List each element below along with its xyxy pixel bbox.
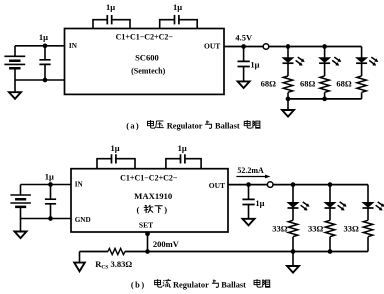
- svg-text:52.2mA: 52.2mA: [237, 166, 264, 175]
- capacitor C2 flying (b): [166, 154, 201, 169]
- label 4.5V: [235, 33, 253, 43]
- pin row label C1+C1-C2+C2- a: [116, 33, 174, 42]
- node dot SET pin: [145, 232, 150, 237]
- node dot out cap b: [246, 182, 251, 187]
- wire out rail a left part: [224, 46, 263, 48]
- node dot out cap a: [241, 44, 246, 49]
- resistor R6 33ohm: [363, 208, 372, 252]
- wire SET drop: [147, 232, 149, 252]
- label maker (CJK): [137, 205, 168, 215]
- wire out rail b right part: [273, 184, 368, 186]
- svg-text:(: (: [137, 205, 140, 215]
- pin row label C1+C1-C2+C2- b: [120, 173, 178, 182]
- node open circle b: [267, 182, 273, 188]
- label 68ohm 3: [336, 78, 352, 88]
- capacitor C1 flying (b): [97, 154, 135, 169]
- svg-text:Regulator: Regulator: [173, 281, 209, 290]
- svg-text:Regulator: Regulator: [167, 122, 203, 131]
- label 68ohm 1: [261, 78, 277, 88]
- svg-text:OUT: OUT: [209, 181, 225, 190]
- caption b: [131, 279, 270, 290]
- svg-text:68Ω: 68Ω: [336, 78, 352, 88]
- label SC600: [135, 52, 159, 62]
- resistor Rcs horizontal: [108, 248, 125, 254]
- svg-text:Ballast: Ballast: [215, 122, 240, 131]
- svg-text:1μ: 1μ: [178, 143, 187, 153]
- label MAX1910: [134, 191, 173, 201]
- wire out rail b left part: [228, 184, 267, 186]
- label 33ohm 2: [308, 224, 324, 234]
- battery V1: [4, 46, 25, 80]
- wire bottom rail a: [288, 98, 362, 100]
- node dot input cap bottom b: [48, 216, 53, 221]
- resistor R4 33ohm: [288, 208, 297, 252]
- label 1u C2 a: [173, 2, 182, 12]
- pin label OUT b: [209, 181, 225, 190]
- node dot branch1 bottom b: [291, 249, 296, 254]
- resistor R2 68ohm: [320, 63, 329, 99]
- node dot SET rail: [145, 249, 150, 254]
- op-amp U1 SC600 box: [65, 29, 225, 95]
- svg-text:33Ω: 33Ω: [344, 224, 360, 234]
- pin label OUT a: [204, 42, 220, 51]
- node dot input cap top a: [43, 43, 48, 48]
- svg-text:RCS 3.83Ω: RCS 3.83Ω: [95, 259, 132, 271]
- node dot input cap bottom a: [43, 78, 48, 83]
- resistor R3 68ohm: [357, 63, 366, 99]
- node dot branch1 top b: [291, 182, 296, 187]
- capacitor Cout 1u (b): [242, 185, 254, 219]
- op-amp U2 MAX1910 box: [71, 169, 228, 232]
- pin label SET b: [139, 220, 153, 229]
- svg-text:1μ: 1μ: [255, 198, 264, 208]
- ground battery b: [15, 219, 27, 239]
- label 33ohm 3: [344, 224, 360, 234]
- wire bottom rail b right: [125, 251, 368, 253]
- LED D3: [356, 47, 378, 66]
- label 1u input cap a: [39, 32, 48, 42]
- node dot branch2 top b: [328, 182, 333, 187]
- svg-text:33Ω: 33Ω: [272, 224, 288, 234]
- ground LED rail b: [287, 252, 299, 273]
- battery V2: [10, 185, 31, 219]
- svg-text:C1+C1−C2+C2−: C1+C1−C2+C2−: [120, 173, 178, 182]
- label 200mV: [153, 239, 180, 249]
- node dot branch2 top a: [322, 44, 327, 49]
- capacitor Cin 1u (a): [39, 46, 50, 80]
- svg-text:IN: IN: [75, 181, 84, 189]
- capacitor Cout 1u (a): [238, 47, 250, 82]
- node dot branch2 bottom a: [322, 97, 327, 102]
- wire bottom rail b left: [80, 251, 109, 253]
- label 1u out cap b: [255, 198, 264, 208]
- svg-text:200mV: 200mV: [153, 239, 180, 249]
- label 68ohm 2: [300, 78, 316, 88]
- ground Rcs: [74, 252, 85, 272]
- label Semtech: [131, 66, 166, 75]
- svg-text:SET: SET: [139, 220, 153, 229]
- ground battery a: [9, 80, 21, 99]
- label 1u C1 a: [106, 2, 115, 12]
- label 1u out cap a: [250, 60, 259, 70]
- LED D4: [288, 185, 310, 211]
- svg-text:1μ: 1μ: [106, 2, 115, 12]
- svg-text:OUT: OUT: [204, 42, 220, 51]
- label 1u C1 b: [110, 143, 119, 153]
- svg-text:(b): (b): [131, 281, 146, 290]
- svg-text:GND: GND: [75, 216, 91, 224]
- label 1u input cap b: [45, 171, 54, 181]
- svg-text:C1+C1−C2+C2−: C1+C1−C2+C2−: [116, 33, 174, 42]
- ground out cap a: [238, 81, 250, 88]
- label 33ohm 1: [272, 224, 288, 234]
- node dot branch1 top a: [286, 44, 291, 49]
- svg-text:68Ω: 68Ω: [300, 78, 316, 88]
- ground out cap b: [243, 219, 255, 226]
- svg-text:MAX1910: MAX1910: [134, 191, 173, 201]
- caption a: [126, 120, 260, 130]
- pin label IN b: [75, 181, 84, 189]
- label 1u C2 b: [178, 143, 187, 153]
- wire bottom left a: [15, 79, 65, 81]
- ground LED rail a: [282, 99, 294, 117]
- svg-text:IN: IN: [69, 42, 78, 50]
- resistor R5 33ohm: [325, 208, 334, 252]
- svg-text:1μ: 1μ: [45, 171, 54, 181]
- svg-text:1μ: 1μ: [39, 32, 48, 42]
- wire top left a: [15, 45, 65, 47]
- svg-text:1μ: 1μ: [173, 2, 182, 12]
- LED D6: [363, 185, 384, 211]
- node open circle a: [263, 44, 269, 50]
- svg-text:Ballast: Ballast: [221, 281, 246, 290]
- wire top left b: [21, 184, 72, 186]
- wire gnd left b: [21, 218, 72, 220]
- pin label IN a: [69, 42, 78, 50]
- label Rcs 3.83ohm: [95, 259, 132, 271]
- capacitor C1 flying (a): [93, 15, 130, 29]
- LED D2: [319, 47, 341, 66]
- current arrow: [236, 175, 270, 179]
- svg-text:68Ω: 68Ω: [261, 78, 277, 88]
- wire out rail a right part: [269, 46, 362, 48]
- svg-text:1μ: 1μ: [110, 143, 119, 153]
- svg-text:): ): [164, 205, 167, 215]
- LED D5: [325, 185, 347, 211]
- svg-text:33Ω: 33Ω: [308, 224, 324, 234]
- svg-text:(a): (a): [126, 122, 140, 131]
- svg-text:SC600: SC600: [135, 52, 159, 62]
- resistor R1 68ohm: [283, 63, 292, 99]
- node dot input cap top b: [48, 182, 53, 187]
- node dot branch1 bottom a: [286, 97, 291, 102]
- svg-text:4.5V: 4.5V: [235, 33, 253, 43]
- node dot branch2 bottom b: [328, 249, 333, 254]
- svg-text:(Semtech): (Semtech): [131, 66, 166, 75]
- capacitor Cin 1u (b): [45, 185, 56, 219]
- pin label GND b: [75, 216, 91, 224]
- label 52.2mA: [237, 166, 264, 175]
- capacitor C2 flying (a): [160, 15, 198, 29]
- LED D1: [283, 47, 305, 66]
- svg-text:1μ: 1μ: [250, 60, 259, 70]
